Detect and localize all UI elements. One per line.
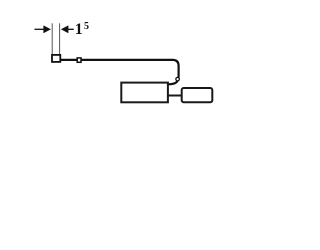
control unit box <box>121 83 168 103</box>
svg-text:1: 1 <box>75 21 83 38</box>
flush-mounted wall box <box>52 55 60 62</box>
wall line right <box>59 23 61 55</box>
wall line left <box>51 23 53 55</box>
cable grommet circle <box>176 77 180 81</box>
power supply box <box>182 88 213 102</box>
mains cable wire <box>61 60 179 84</box>
dimension leader left <box>35 28 45 30</box>
connecting lead <box>168 95 182 97</box>
dimension arrowhead left <box>43 25 51 33</box>
dimension arrowhead right <box>61 25 69 33</box>
dimension leader right <box>68 28 74 30</box>
cable connector square <box>77 58 81 62</box>
svg-text:5: 5 <box>84 21 89 32</box>
